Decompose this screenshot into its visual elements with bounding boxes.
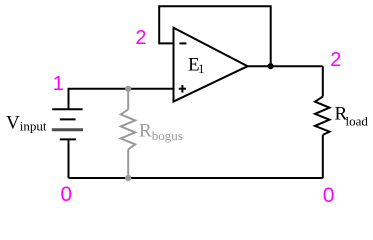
junction dot node 0 (gray)	[125, 175, 131, 181]
svg-text:2: 2	[330, 49, 341, 71]
svg-text:1: 1	[53, 73, 64, 95]
voltage source V_input battery plates	[52, 109, 83, 139]
wire node 0: R_load bottom lead	[322, 135, 324, 178]
op-amp E1 non-inverting input plus sign	[179, 85, 186, 93]
svg-text:0: 0	[323, 184, 335, 207]
resistor R_bogus (gray)	[121, 89, 135, 178]
junction dot node 2 (black)	[268, 63, 274, 69]
wire node 1: battery top lead to op-amp + input	[69, 89, 173, 110]
resistor R_load	[315, 97, 330, 135]
svg-text:0: 0	[60, 183, 72, 206]
wire node 2: right column down to R_load	[322, 66, 324, 96]
wire node 0: bottom rail	[69, 177, 323, 179]
svg-text:2: 2	[135, 27, 146, 49]
op-amp E1 triangle	[174, 28, 248, 102]
op-amp E1 inverting input minus sign	[179, 42, 186, 44]
wire node 0: left column from battery bottom	[68, 139, 70, 178]
wire feedback loop: output node 2 to inverting input	[159, 6, 271, 66]
wire node 2: op-amp output to R_load	[248, 65, 323, 67]
junction dot node 1 (gray)	[125, 86, 131, 92]
